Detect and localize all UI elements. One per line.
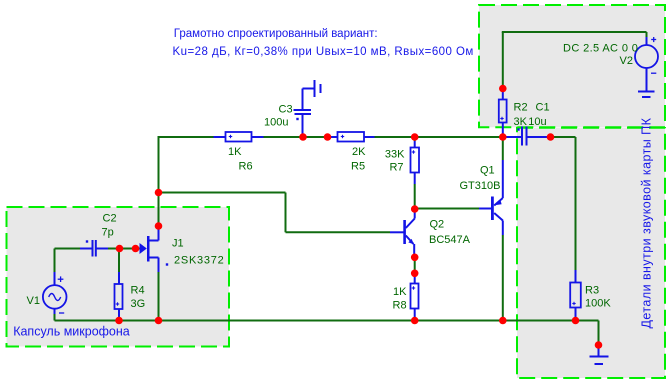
svg-text:V2: V2 [620,55,633,67]
svg-text:R2: R2 [514,102,528,114]
svg-text:C3: C3 [279,104,293,116]
svg-text:C2: C2 [103,213,117,225]
svg-text:J1: J1 [172,238,184,250]
svg-text:V1: V1 [27,295,40,307]
svg-text:DC 2.5 AC 0 0: DC 2.5 AC 0 0 [563,42,638,54]
svg-text:10u: 10u [528,116,546,128]
svg-text:BC547A: BC547A [429,234,471,246]
svg-text:Детали внутри звуковой карты П: Детали внутри звуковой карты ПК [640,117,654,328]
svg-text:R6: R6 [239,161,253,173]
svg-text:R7: R7 [389,162,403,174]
svg-text:3K: 3K [514,116,528,128]
svg-text:33K: 33K [385,149,405,161]
svg-text:1K: 1K [228,146,242,158]
svg-text:2SK3372: 2SK3372 [174,255,225,267]
svg-text:Q1: Q1 [480,165,495,177]
svg-text:7p: 7p [102,227,114,239]
svg-text:C1: C1 [536,102,550,114]
svg-text:Грамотно спроектированный вари: Грамотно спроектированный вариант: [174,28,378,40]
svg-text:R8: R8 [393,299,407,311]
svg-text:100K: 100K [585,298,611,310]
svg-text:100u: 100u [264,117,288,129]
svg-text:R4: R4 [131,285,145,297]
svg-text:R3: R3 [585,285,599,297]
svg-text:3G: 3G [131,298,146,310]
svg-text:Q2: Q2 [430,219,445,231]
svg-text:Ku=28 дБ, Кг=0,38% при Uвых=10: Ku=28 дБ, Кг=0,38% при Uвых=10 мВ, Rвых=… [173,46,474,58]
svg-text:1K: 1K [393,286,407,298]
svg-text:Капсуль микрофона: Капсуль микрофона [13,325,130,339]
svg-text:GT310B: GT310B [460,180,501,192]
svg-text:2K: 2K [352,146,366,158]
svg-text:R5: R5 [351,161,365,173]
